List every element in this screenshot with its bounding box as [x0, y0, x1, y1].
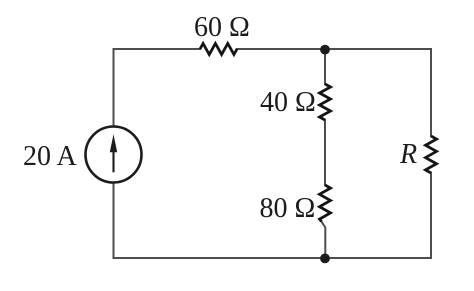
svg-text:60 Ω: 60 Ω — [194, 12, 250, 43]
svg-text:80 Ω: 80 Ω — [260, 193, 316, 224]
svg-text:R: R — [399, 139, 417, 170]
svg-text:20 A: 20 A — [23, 141, 77, 172]
svg-text:40 Ω: 40 Ω — [260, 87, 316, 118]
